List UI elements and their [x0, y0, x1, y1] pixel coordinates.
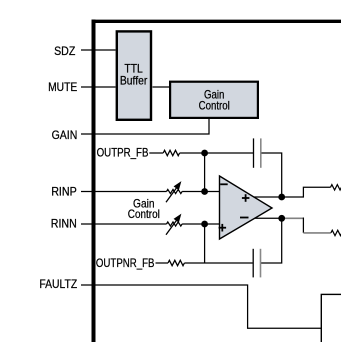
svg-text:Control: Control: [199, 99, 230, 113]
svg-text:OUTPNR_FB: OUTPNR_FB: [96, 256, 155, 270]
svg-text:SDZ: SDZ: [54, 44, 75, 58]
svg-text:OUTPR_FB: OUTPR_FB: [97, 146, 149, 160]
svg-text:Buffer: Buffer: [120, 73, 147, 87]
svg-text:Control: Control: [128, 207, 160, 221]
svg-text:RINP: RINP: [51, 184, 77, 198]
svg-text:FAULTZ: FAULTZ: [39, 277, 77, 291]
svg-text:MUTE: MUTE: [48, 80, 77, 94]
svg-text:GAIN: GAIN: [52, 128, 78, 142]
svg-text:RINN: RINN: [51, 217, 77, 231]
